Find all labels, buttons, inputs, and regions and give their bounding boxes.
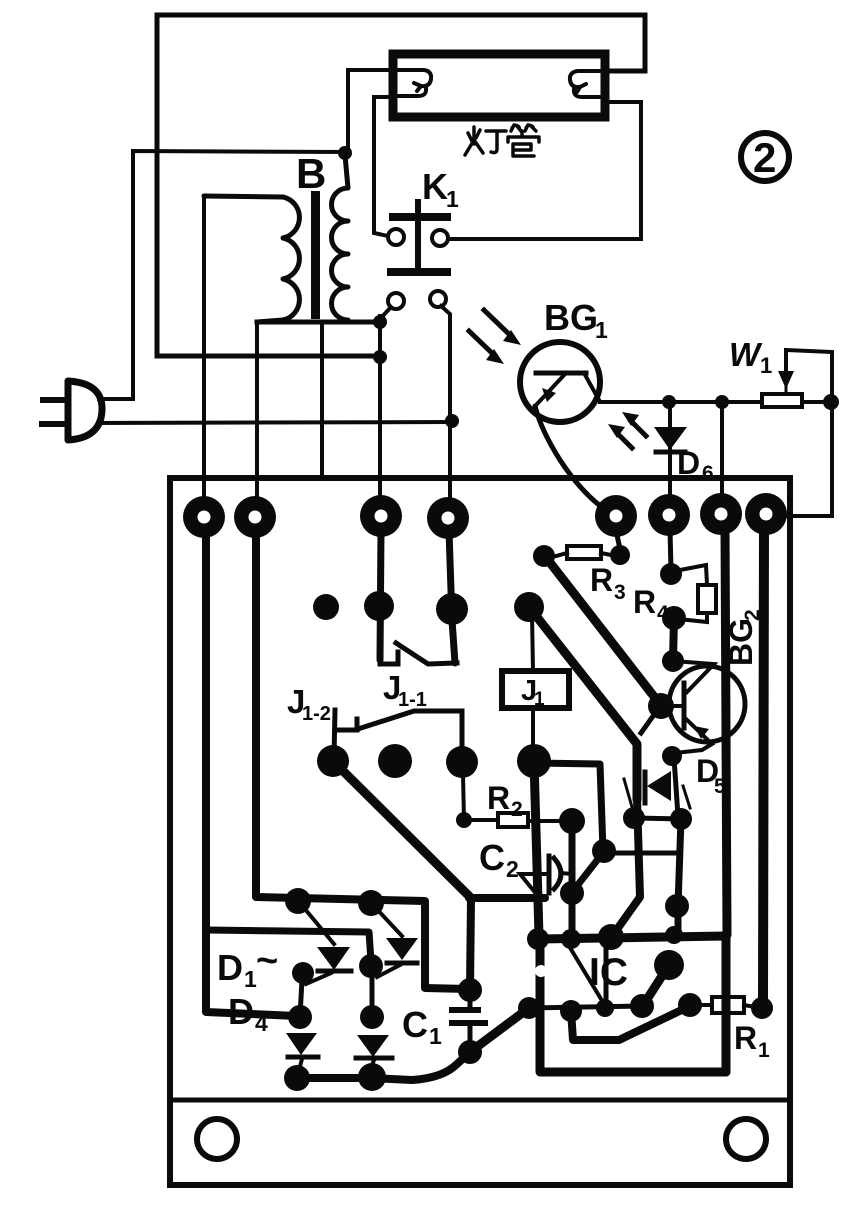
- svg-text:D: D: [228, 991, 254, 1032]
- trace emitter dot down: [674, 758, 678, 816]
- svg-text:4: 4: [657, 602, 669, 625]
- BG1 collector: [584, 373, 599, 400]
- svg-text:R: R: [734, 1020, 757, 1056]
- solder dot J1-1 right: [436, 593, 468, 625]
- trace R4 dot to collector dot: [673, 618, 674, 660]
- svg-text:1-1: 1-1: [398, 689, 427, 711]
- IC middle pin row: [529, 1006, 645, 1008]
- D6 light arrows: [608, 412, 646, 448]
- solder dot J1 top: [514, 592, 544, 622]
- solder dot C2 node: [560, 881, 584, 905]
- bridge bottom bus: [297, 1053, 469, 1080]
- svg-text:R: R: [590, 562, 613, 598]
- pad 4: [427, 497, 469, 539]
- svg-text:1: 1: [595, 317, 608, 343]
- junction dot at x=452: [445, 414, 459, 428]
- trace pad2 down column: [256, 530, 468, 989]
- BG2 collector lead: [673, 661, 714, 692]
- svg-text:1: 1: [534, 689, 545, 710]
- junction dot transformer bottom: [373, 315, 387, 329]
- trace down: [300, 980, 302, 1016]
- capacitor C1: [468, 990, 473, 1008]
- mains plug: [68, 381, 102, 440]
- wire plug lower lead long horizontal: [98, 422, 452, 423]
- trace horizontal y=898: [469, 894, 545, 902]
- svg-text:C: C: [402, 1004, 428, 1045]
- resistor R3: [567, 546, 601, 559]
- wire K1 lower-right contact to pad 4: [441, 306, 450, 518]
- solder dot R1 left: [678, 993, 702, 1017]
- BG2 base bar: [682, 683, 687, 728]
- svg-text:~: ~: [256, 940, 278, 982]
- bridge top bus y=901: [285, 888, 311, 914]
- resistor R1: [690, 1003, 712, 1007]
- trace pad7 down to IC corner: [725, 528, 727, 935]
- solder dot: [359, 954, 383, 978]
- trace pad4 down: [449, 531, 455, 663]
- wire transformer bottom bus: [257, 320, 380, 325]
- BG1 light arrows: [469, 310, 521, 364]
- junction dots on y=402: [662, 395, 676, 409]
- trace dot right to D5 column: [604, 851, 678, 856]
- trace dot A diagonal to bottom net: [333, 761, 471, 898]
- switch K1 plunger: [391, 202, 447, 272]
- BG1 base bar: [536, 371, 586, 376]
- diode D3 lead: [373, 905, 402, 936]
- IC inner U trace: [571, 1006, 690, 1040]
- D5 side slants: [624, 779, 632, 807]
- BG1 emitter with arrow: [537, 373, 566, 404]
- solder dot x=678: [665, 894, 689, 918]
- svg-text:R: R: [633, 584, 656, 620]
- pad 3: [360, 495, 402, 537]
- svg-text:2: 2: [506, 856, 519, 882]
- trace J1 bottom right then down: [534, 763, 603, 851]
- svg-text:W: W: [729, 336, 763, 373]
- potentiometer W1: [762, 394, 802, 407]
- trace D5 right column down: [678, 819, 681, 933]
- trace row B from pad1 column: [207, 930, 371, 961]
- wire stub to board edge x=322: [320, 322, 324, 478]
- diode D5 triangle and bar: [647, 771, 671, 801]
- phototransistor BG1: [520, 342, 600, 422]
- trace C2 node vertical: [569, 821, 576, 939]
- stub base dot to D5 column: [641, 709, 658, 733]
- solder dot: [292, 962, 314, 984]
- capacitor C2: [520, 874, 548, 896]
- svg-text:IC: IC: [589, 951, 628, 994]
- relay J1 coil box: [532, 614, 533, 671]
- trace U bottom right of bus: [458, 978, 482, 1002]
- svg-text:3: 3: [614, 581, 626, 604]
- IC loop right edge restroke over R1: [722, 990, 731, 1072]
- svg-text:K: K: [422, 166, 448, 207]
- wire y=402 to pad 7: [720, 402, 724, 514]
- solder dot B (J1-2 right): [446, 746, 478, 778]
- solder dot D5 top (emitter): [662, 746, 682, 766]
- diode D1: [317, 947, 350, 970]
- thick trace J1 bottom down to IC corner: [534, 761, 539, 936]
- IC inner blob pin: [654, 950, 684, 980]
- svg-text:1: 1: [446, 186, 459, 212]
- trace pad5 stub: [617, 535, 620, 549]
- diode D4: [357, 1035, 389, 1057]
- solder dot x=604: [592, 839, 616, 863]
- solder dot A (J1-2 left): [317, 745, 349, 777]
- trace from D5 column bend to IC edge: [613, 798, 640, 935]
- circled figure 2: [741, 133, 789, 181]
- wire primary top to pad 1: [202, 196, 206, 517]
- trace pad3 to J1-1: [380, 530, 381, 660]
- diode D3: [386, 938, 418, 960]
- thick trace diagonal J1-dot to D5 column: [533, 612, 637, 800]
- svg-text:2: 2: [511, 798, 523, 821]
- pad 1: [183, 496, 225, 538]
- wire main horizontal y=402: [600, 400, 831, 404]
- diode D2: [286, 1033, 317, 1055]
- wire outer lamp loop (lamp right top to left side down): [157, 15, 645, 356]
- LED D6: [668, 402, 672, 517]
- wire K1 node down to pad 3: [378, 316, 382, 517]
- transformer B primary winding: [204, 196, 299, 322]
- pad 2: [234, 496, 276, 538]
- transformer B secondary winding: [332, 155, 349, 321]
- svg-text:6: 6: [702, 462, 714, 485]
- relay contact J1-2: [334, 710, 335, 756]
- svg-text:2: 2: [753, 134, 776, 181]
- pad 7: [700, 493, 742, 535]
- J1-1 fixed contact hook: [380, 652, 398, 664]
- thick trace to IC row: [470, 1008, 529, 1052]
- thick trace diagonal R3 to BG2 base: [548, 560, 659, 703]
- lamp right filament: [570, 71, 600, 97]
- solder dot BG2 collector: [662, 650, 684, 672]
- solder dot R4 bottom: [662, 606, 686, 630]
- mounting hole right: [726, 1119, 766, 1159]
- svg-text:1-2: 1-2: [302, 703, 331, 725]
- BG1 emitter curve to pad 5: [535, 406, 612, 514]
- BG2 emitter lead with arrow: [674, 719, 712, 753]
- PCB board outline: [170, 478, 790, 1185]
- spare solder dot: [313, 594, 339, 620]
- svg-text:1: 1: [758, 1039, 770, 1062]
- mounting hole left: [197, 1119, 237, 1159]
- wire node A horizontal: [133, 151, 345, 399]
- wire K1 lower-left contact to node: [381, 307, 391, 318]
- svg-text:BG: BG: [544, 297, 598, 338]
- wire lamp left filament top to node: [348, 70, 393, 153]
- PCB bottom strip line: [170, 1098, 790, 1103]
- solder dot J1 bottom: [517, 744, 551, 778]
- svg-text:1: 1: [429, 1023, 442, 1049]
- solder dot R2 right end: [559, 808, 585, 834]
- svg-text:C: C: [479, 837, 505, 878]
- label 灯管 (lamp tube): [465, 125, 539, 156]
- solder dot J1-1 left: [364, 591, 394, 621]
- diode D1 lead: [300, 903, 334, 944]
- trace dot diagonal down-left to C2 node: [573, 854, 602, 891]
- transformer B core: [311, 191, 320, 319]
- svg-text:B: B: [296, 150, 326, 197]
- junction node at transformer secondary top: [338, 146, 352, 160]
- solder dot R4 top: [660, 563, 682, 585]
- wire lamp left filament bottom to K1: [374, 97, 393, 236]
- solder dot R3 right: [610, 545, 630, 565]
- resistor R2: [464, 818, 498, 822]
- junction dot outer loop join: [373, 350, 387, 364]
- transistor BG2: [669, 666, 745, 742]
- solder dots on IC top edge: [527, 928, 549, 950]
- trace pad1 down-left column: [206, 530, 297, 1016]
- trace pad8 down to R1: [763, 528, 764, 1003]
- white hole in left edge: [535, 965, 547, 977]
- wire primary bottom to pad 2: [255, 322, 259, 517]
- wire lamp right filament bottom to K1: [448, 102, 641, 239]
- J1-1 movable arm: [396, 643, 457, 664]
- wire W1 right down to pad 8: [787, 402, 832, 516]
- svg-text:D: D: [217, 947, 243, 988]
- label BG2 vertical: [723, 609, 764, 666]
- switch K1 upper contacts: [388, 229, 404, 245]
- IC inner vertical pin: [604, 939, 609, 1007]
- solder dot R3 left: [533, 545, 555, 567]
- IC outline trace loop: [539, 936, 726, 1072]
- BG2 base dot and lead: [648, 693, 674, 719]
- lamp left filament: [398, 70, 431, 96]
- IC inner thin diagonal: [566, 941, 604, 1004]
- svg-text:R: R: [487, 780, 510, 816]
- pad 8: [745, 493, 787, 535]
- pad 5: [595, 495, 637, 537]
- pad 6: [648, 494, 690, 536]
- trace pad6 down: [670, 530, 671, 570]
- wire plug upper lead: [99, 397, 133, 401]
- lamp tube 灯管 body: [393, 54, 605, 117]
- resistor R4 zigzag leads: [680, 565, 707, 585]
- svg-text:1: 1: [760, 353, 772, 378]
- solder dots D5 bottom: [623, 807, 645, 829]
- trace dot B down to R2: [463, 775, 464, 820]
- solder dot middle: [378, 744, 412, 778]
- switch K1 lower contacts: [388, 293, 404, 309]
- svg-text:4: 4: [255, 1010, 268, 1036]
